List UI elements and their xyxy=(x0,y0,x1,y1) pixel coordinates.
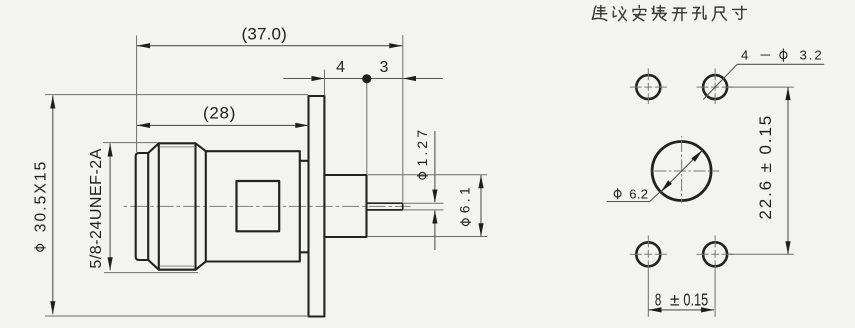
svg-text:(37.0): (37.0) xyxy=(242,25,287,44)
svg-text:(28): (28) xyxy=(203,104,235,123)
svg-text:5/8-24UNEF-2A: 5/8-24UNEF-2A xyxy=(88,148,105,268)
svg-text:22.6 ± 0.15: 22.6 ± 0.15 xyxy=(756,116,775,220)
svg-text:8: 8 xyxy=(655,289,661,309)
svg-text:±: ± xyxy=(670,289,680,309)
svg-text:4: 4 xyxy=(741,48,748,63)
svg-text:4: 4 xyxy=(336,59,345,76)
svg-text:3.2: 3.2 xyxy=(800,48,822,63)
svg-text:6.2: 6.2 xyxy=(629,187,648,202)
svg-text:1.27: 1.27 xyxy=(414,130,430,167)
svg-text:0.15: 0.15 xyxy=(683,289,708,309)
svg-text:6.1: 6.1 xyxy=(457,187,472,213)
svg-text:3: 3 xyxy=(380,59,389,76)
svg-text:−: − xyxy=(760,48,772,63)
